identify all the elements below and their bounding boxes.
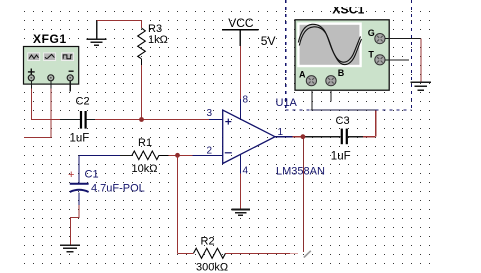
svg-text:XFG1: XFG1 <box>33 32 67 46</box>
ground below C1 <box>60 245 80 251</box>
svg-text:C3: C3 <box>336 115 350 127</box>
capacitor C3 <box>331 115 351 162</box>
oscilloscope XSC1 <box>295 3 389 91</box>
svg-text:8: 8 <box>243 95 249 106</box>
svg-text:C2: C2 <box>76 96 90 108</box>
svg-text:VCC: VCC <box>228 16 254 30</box>
wire XFG1 + to C2 <box>31 89 60 120</box>
svg-text:T: T <box>368 49 374 59</box>
resistor R1 <box>132 137 169 175</box>
capacitor C1 (polarized) <box>68 169 145 195</box>
wire scope A to C3 node <box>311 91 376 110</box>
wire XFG1 common stub <box>24 89 51 138</box>
svg-text:R2: R2 <box>201 236 215 248</box>
svg-text:3: 3 <box>207 108 213 119</box>
wire scope T stub <box>385 59 409 61</box>
wire G to ground <box>420 39 422 82</box>
selection box around XSC1 (dashed) <box>286 0 412 110</box>
resistor R3 <box>138 20 168 65</box>
svg-text:1uF: 1uF <box>331 150 351 162</box>
ground below op-amp <box>232 210 251 216</box>
svg-text:G: G <box>368 28 375 38</box>
wire corner slash <box>304 251 311 258</box>
VCC power symbol <box>222 16 275 48</box>
wire C3 right lead <box>348 136 376 138</box>
wire C2 to op-amp pin 3 <box>95 119 223 121</box>
wire XFG1 minus stub <box>69 81 71 92</box>
svg-text:LM358AN: LM358AN <box>276 165 325 177</box>
resistor R2 <box>194 236 229 273</box>
ground near scope <box>411 82 431 90</box>
svg-text:R1: R1 <box>138 137 152 149</box>
wire junction down to R2 <box>178 155 194 253</box>
wire R2 to output drop <box>226 252 299 254</box>
op-amp U1A <box>193 95 325 178</box>
wire ground to R3 <box>97 19 142 21</box>
svg-text:A: A <box>299 70 306 80</box>
svg-text:300kΩ: 300kΩ <box>196 261 228 273</box>
svg-text:C1: C1 <box>85 169 99 181</box>
junction node output <box>301 134 306 139</box>
function generator XFG1 <box>24 32 79 84</box>
wire C1 to R1 <box>79 156 132 184</box>
wire XFG1 + terminal lead <box>30 81 32 89</box>
svg-text:U1A: U1A <box>276 97 298 109</box>
wire VCC to pin 8 <box>239 46 241 99</box>
wire C1 to ground <box>70 193 79 245</box>
svg-text:4: 4 <box>243 166 249 177</box>
svg-text:B: B <box>338 68 345 78</box>
wire R1 to pin 2 <box>178 154 193 156</box>
pin label 3 <box>207 108 213 119</box>
wire C2 left lead <box>60 119 80 121</box>
svg-text:1kΩ: 1kΩ <box>148 34 168 46</box>
wire output node down to R2 <box>302 137 304 252</box>
wire XFG1 common lead <box>50 81 52 89</box>
wire pin 4 to ground <box>239 174 241 210</box>
junction node R3/C2 <box>139 117 144 122</box>
wire C3 up to scope channel wire <box>375 110 377 136</box>
capacitor C2 <box>70 96 90 145</box>
wire scope G <box>385 38 421 40</box>
svg-text:1uF: 1uF <box>70 133 90 145</box>
wire scope B stub <box>330 91 332 102</box>
svg-text:5V: 5V <box>261 34 276 48</box>
wire R3 to input node <box>141 65 143 120</box>
svg-text:4.7uF-POL: 4.7uF-POL <box>91 183 145 195</box>
junction node R1/pin2/R2 <box>175 153 180 158</box>
wire R1 to junction <box>169 154 178 156</box>
wire C2 right lead <box>87 119 95 121</box>
svg-text:+: + <box>68 169 74 181</box>
svg-text:10kΩ: 10kΩ <box>132 163 158 175</box>
wire output to C3 <box>293 136 341 138</box>
svg-text:R3: R3 <box>148 23 162 35</box>
ground near XFG1 <box>87 20 107 45</box>
